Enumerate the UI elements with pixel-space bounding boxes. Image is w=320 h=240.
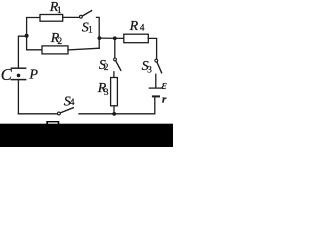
svg-text:3: 3 <box>104 88 109 98</box>
svg-text:ε: ε <box>162 77 168 92</box>
svg-text:2: 2 <box>104 63 109 73</box>
svg-text:4: 4 <box>140 24 145 34</box>
svg-text:1: 1 <box>57 6 62 16</box>
svg-text:P: P <box>28 68 38 83</box>
svg-text:R: R <box>129 19 139 34</box>
svg-text:4: 4 <box>70 98 75 108</box>
svg-text:C: C <box>1 65 13 84</box>
svg-text:1: 1 <box>88 25 93 35</box>
svg-text:2: 2 <box>57 37 62 47</box>
svg-text:r: r <box>162 94 167 106</box>
svg-text:3: 3 <box>147 65 152 75</box>
